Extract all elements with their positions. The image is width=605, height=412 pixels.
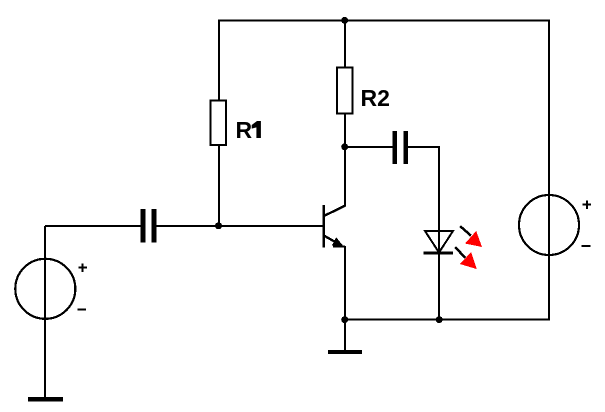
wire collector to C2	[345, 146, 393, 148]
node LED bottom junction	[436, 316, 443, 323]
source V2	[519, 195, 591, 255]
wire R1 top lead	[218, 20, 220, 101]
node emitter junction	[341, 316, 348, 323]
source V1	[15, 259, 87, 319]
capacitor C1	[141, 209, 157, 243]
capacitor C2	[393, 131, 409, 164]
wire base left segment (V1 to C1)	[45, 225, 141, 227]
wire R2 top lead	[344, 21, 346, 68]
wire right vertical to V2	[548, 20, 550, 320]
wire R2 bottom lead	[344, 114, 346, 147]
svg-text:R: R	[236, 117, 253, 143]
resistor R1	[211, 101, 227, 146]
wire C2 to LED branch corner	[408, 146, 440, 148]
wire ground stub (emitter)	[344, 320, 346, 351]
LED light arrow 2	[455, 247, 477, 269]
ground (V1)	[28, 397, 63, 401]
wire bottom rail	[345, 319, 550, 321]
node top junction	[341, 17, 348, 24]
LED light arrow 1	[460, 226, 482, 247]
wire R1 bottom lead	[218, 145, 220, 226]
node collector junction	[341, 143, 348, 150]
wire base right segment (C1 to Q1)	[156, 225, 323, 227]
label R1	[236, 117, 261, 143]
LED D1	[424, 231, 454, 253]
ground (emitter)	[328, 350, 362, 354]
node base junction	[215, 222, 222, 229]
wire top rail	[219, 20, 550, 22]
wire LED branch vertical	[438, 146, 440, 320]
svg-text:R2: R2	[361, 85, 390, 111]
transistor Q1	[324, 147, 346, 320]
resistor R2	[337, 68, 353, 114]
wire left source vertical	[44, 226, 46, 397]
